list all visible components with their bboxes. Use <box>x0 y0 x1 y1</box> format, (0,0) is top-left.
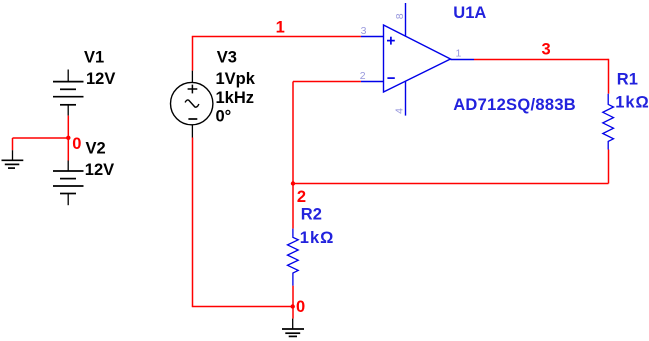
wire feedback vertical <box>292 82 294 229</box>
svg-text:0: 0 <box>296 298 305 316</box>
wire bottom to node 0 <box>192 306 293 308</box>
svg-text:1: 1 <box>456 48 462 60</box>
svg-text:4: 4 <box>394 108 406 114</box>
svg-text:1kΩ: 1kΩ <box>615 94 649 112</box>
wire R2 bottom to node 0 <box>292 286 294 319</box>
svg-text:2: 2 <box>297 188 306 206</box>
battery V2 <box>53 161 84 206</box>
svg-text:V2: V2 <box>86 140 106 158</box>
ground (left) <box>2 150 24 168</box>
svg-text:12V: 12V <box>85 161 114 179</box>
junction node 2 <box>291 181 295 185</box>
svg-text:3: 3 <box>361 25 367 37</box>
source V3 <box>171 71 213 138</box>
ground (bottom) <box>282 319 304 337</box>
svg-text:R1: R1 <box>617 70 638 88</box>
wire output corner down to R1 <box>608 59 610 94</box>
svg-text:8: 8 <box>394 13 406 19</box>
battery V1 <box>53 70 84 116</box>
wire V3 bottom down <box>192 138 194 307</box>
svg-text:V3: V3 <box>217 49 237 67</box>
svg-text:V1: V1 <box>84 49 104 67</box>
svg-text:1: 1 <box>276 18 285 36</box>
resistor R1 <box>603 94 614 150</box>
wire V3 top up <box>192 37 194 71</box>
svg-text:AD712SQ/883B: AD712SQ/883B <box>453 96 576 114</box>
svg-text:R2: R2 <box>301 206 322 224</box>
svg-text:12V: 12V <box>86 70 115 88</box>
svg-text:3: 3 <box>542 40 551 58</box>
svg-text:1Vpk: 1Vpk <box>216 70 256 88</box>
wire net 1 to op-amp plus input <box>192 36 361 38</box>
svg-text:1kHz: 1kHz <box>216 89 255 107</box>
svg-text:0°: 0° <box>216 107 232 125</box>
resistor R2 <box>288 229 299 286</box>
op-amp U1A <box>361 3 474 116</box>
wire V1 bottom to V2 top (net 0) <box>67 116 69 161</box>
svg-text:2: 2 <box>360 70 366 82</box>
wire R1 bottom down <box>608 150 610 184</box>
svg-text:0: 0 <box>72 135 81 153</box>
wire down to left ground <box>12 138 14 150</box>
wire feedback bottom run (net 2) <box>293 183 609 185</box>
svg-text:U1A: U1A <box>453 4 486 22</box>
junction node 0 (left) <box>66 136 70 140</box>
wire junction to left ground <box>13 137 69 139</box>
wire feedback to minus input <box>293 81 361 83</box>
svg-text:1kΩ: 1kΩ <box>300 229 335 247</box>
wire op-amp output (net 3) <box>474 59 609 61</box>
junction node 0 (bottom) <box>291 304 295 308</box>
